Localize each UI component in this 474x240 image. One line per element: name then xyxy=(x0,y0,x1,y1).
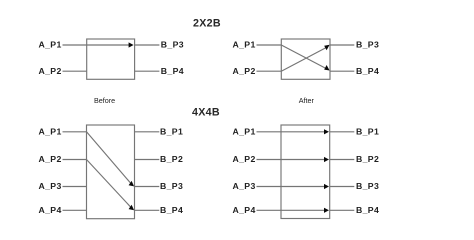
svg-text:After: After xyxy=(299,96,315,105)
wire A_P3 through box to B_P3 (4x4 after) xyxy=(257,186,325,188)
svg-text:B_P3: B_P3 xyxy=(356,40,379,50)
svg-text:A_P2: A_P2 xyxy=(39,154,62,164)
svg-text:B_P2: B_P2 xyxy=(356,154,379,164)
arrowhead at B_P4 exit (4x4 before) xyxy=(129,205,135,211)
wire box to B_P4 (2x2 before) xyxy=(135,70,160,72)
svg-text:A_P2: A_P2 xyxy=(233,154,256,164)
arrowhead at B_P2 exit (4x4 after) xyxy=(324,157,329,162)
svg-text:A_P4: A_P4 xyxy=(233,205,256,215)
wire box to B_P4 (4x4 after) xyxy=(330,209,355,211)
arrowhead at B_P3 exit (4x4 before) xyxy=(129,181,135,187)
svg-text:A_P2: A_P2 xyxy=(233,66,256,76)
svg-text:B_P3: B_P3 xyxy=(161,40,184,50)
wire A_P1 to box (2x2 before) xyxy=(63,44,87,46)
crossing wire A_P2 to B_P3 (2x2 after) xyxy=(281,48,325,71)
wire A_P1 to box (2x2 after) xyxy=(257,44,282,46)
svg-text:A_P4: A_P4 xyxy=(39,205,62,215)
arrowhead at B_P3 exit (4x4 after) xyxy=(324,184,329,189)
svg-text:B_P3: B_P3 xyxy=(356,181,379,191)
arrowhead at B_P4 exit (2x2 after) xyxy=(324,65,329,71)
svg-text:A_P1: A_P1 xyxy=(233,127,256,137)
switch box U1 (2x2 before) xyxy=(87,39,135,79)
wire A_P4 to box (4x4 before) xyxy=(63,209,87,211)
wire A_P1 through box to B_P1 (4x4 after) xyxy=(257,131,325,133)
crossing wire A_P2 to B_P4 (4x4 before) xyxy=(87,160,131,207)
svg-text:A_P1: A_P1 xyxy=(39,40,62,50)
svg-text:B_P4: B_P4 xyxy=(160,205,183,215)
wire box to B_P4 (2x2 after) xyxy=(330,70,354,72)
wire box to B_P2 (4x4 before) xyxy=(135,159,160,161)
arrowhead at B_P3 exit (2x2 before) xyxy=(129,42,134,47)
crossing wire A_P1 to B_P3 (4x4 before) xyxy=(87,132,131,183)
wire A_P2 to box (4x4 before) xyxy=(63,159,87,161)
wire A_P2 to box (2x2 before) xyxy=(63,70,87,72)
wire box to B_P2 (4x4 after) xyxy=(330,159,355,161)
wire A_P1 to box (4x4 before) xyxy=(63,131,87,133)
arrowhead at B_P1 exit (4x4 after) xyxy=(324,129,329,134)
switch box U3 (4x4 before) xyxy=(87,125,135,219)
svg-text:B_P4: B_P4 xyxy=(356,205,379,215)
svg-text:B_P1: B_P1 xyxy=(160,127,183,137)
crossing wire A_P1 to B_P4 (2x2 after) xyxy=(281,45,325,68)
svg-text:A_P2: A_P2 xyxy=(39,66,62,76)
svg-text:B_P1: B_P1 xyxy=(356,127,379,137)
wire box to B_P3 (4x4 before) xyxy=(135,186,160,188)
svg-text:B_P4: B_P4 xyxy=(356,66,379,76)
svg-text:4X4B: 4X4B xyxy=(192,107,220,119)
wire through box A_P1 to B_P3 (2x2 before) xyxy=(87,44,130,46)
wire A_P2 to box (2x2 after) xyxy=(257,70,282,72)
svg-text:A_P1: A_P1 xyxy=(39,127,62,137)
wire A_P3 to box (4x4 before) xyxy=(63,186,87,188)
wire box to B_P1 (4x4 after) xyxy=(330,131,355,133)
svg-text:A_P3: A_P3 xyxy=(233,181,256,191)
wire box to B_P3 (2x2 before) xyxy=(135,44,160,46)
svg-text:B_P2: B_P2 xyxy=(160,154,183,164)
arrowhead at B_P3 exit (2x2 after) xyxy=(324,45,329,51)
arrowhead at B_P4 exit (4x4 after) xyxy=(324,208,329,213)
switch box U4 (4x4 after) xyxy=(281,125,330,219)
svg-text:A_P3: A_P3 xyxy=(39,181,62,191)
wire box to B_P1 (4x4 before) xyxy=(135,131,160,133)
wire A_P4 through box to B_P4 (4x4 after) xyxy=(257,209,325,211)
svg-text:2X2B: 2X2B xyxy=(193,18,221,30)
switch box U2 (2x2 after) xyxy=(281,39,330,79)
wire box to B_P3 (2x2 after) xyxy=(330,44,354,46)
wire box to B_P3 (4x4 after) xyxy=(330,186,355,188)
svg-text:Before: Before xyxy=(94,96,115,105)
svg-text:B_P3: B_P3 xyxy=(160,181,183,191)
svg-text:A_P1: A_P1 xyxy=(233,40,256,50)
wire box to B_P4 (4x4 before) xyxy=(135,209,160,211)
wire A_P2 through box to B_P2 (4x4 after) xyxy=(257,159,325,161)
svg-text:B_P4: B_P4 xyxy=(161,66,184,76)
